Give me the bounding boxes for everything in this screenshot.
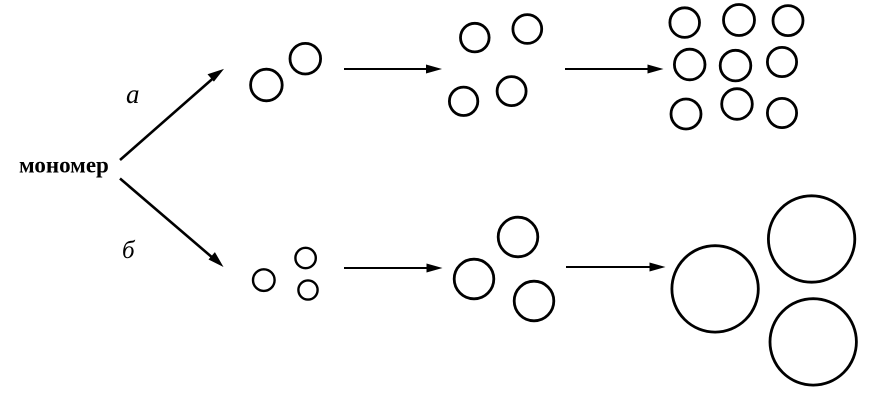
top group 2: four circles xyxy=(449,15,541,116)
arrow h3 (bottom) xyxy=(344,264,443,273)
bottom group 2: three medium circles xyxy=(454,217,554,321)
arrow h2 (top) xyxy=(565,65,664,74)
top group 1: two circles xyxy=(251,43,321,100)
bottom group 3: three large circles xyxy=(672,196,857,385)
top group 3: nine circles xyxy=(670,5,803,130)
arrow a (diagonal up-right) xyxy=(120,69,224,160)
svg-text:мономер: мономер xyxy=(19,153,109,178)
svg-text:а: а xyxy=(126,79,140,109)
svg-text:б: б xyxy=(122,237,136,264)
arrow h1 (top) xyxy=(344,65,442,74)
arrow h4 (bottom) xyxy=(566,263,666,272)
arrow b (diagonal down-right) xyxy=(120,179,224,268)
bottom group 1: three small circles xyxy=(253,248,318,300)
